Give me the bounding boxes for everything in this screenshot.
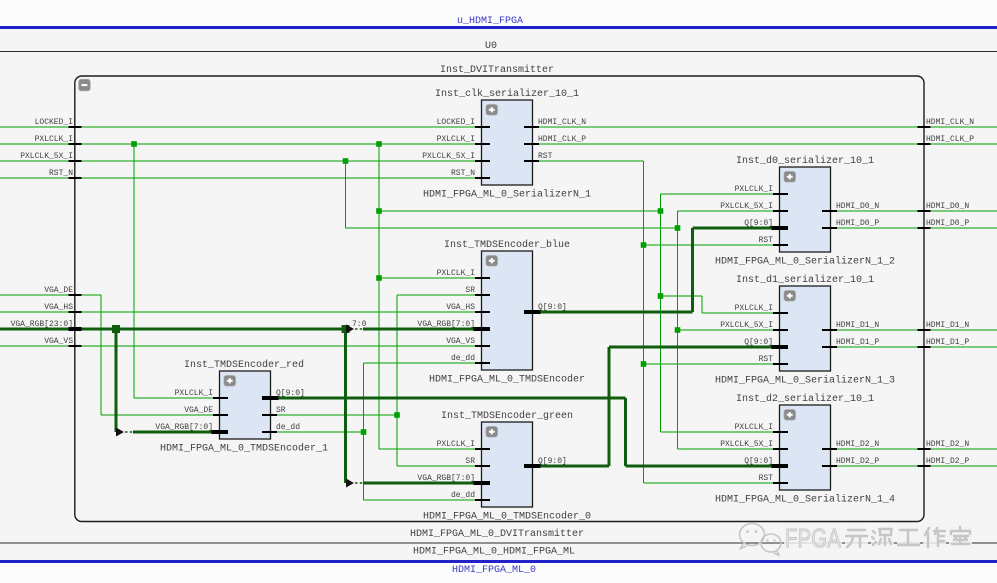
svg-text:HDMI_D0_N: HDMI_D0_N <box>836 202 879 211</box>
left frame feedthrough stubs <box>69 126 82 128</box>
pin PXLCLK_I of Inst_d0_serializer_10_1 <box>773 193 788 195</box>
pin VGA_VS of Inst_TMDSEncoder_blue <box>475 345 490 347</box>
right frame feedthrough stubs <box>918 126 931 128</box>
pin PXLCLK_I of Inst_TMDSEncoder_red <box>213 397 228 399</box>
pin SR of Inst_TMDSEncoder_green <box>475 465 490 467</box>
pin VGA_RGB[7:0] of Inst_TMDSEncoder_green <box>474 481 491 485</box>
svg-text:RST_N: RST_N <box>49 169 73 178</box>
pin LOCKED_I of U1 Inst_clk_serializer_10_1 <box>475 126 490 128</box>
svg-text:VGA_RGB[23:0]: VGA_RGB[23:0] <box>11 320 73 329</box>
bus ripper dashes at green encoder <box>355 482 363 484</box>
svg-text:HDMI_D0_N: HDMI_D0_N <box>926 202 969 211</box>
bus Q[9:0] green encoder to d1 - horizontal <box>541 465 610 468</box>
pin PXLCLK_I of Inst_d2_serializer_10_1 <box>773 431 788 433</box>
wire HDMI_D0_P output <box>836 227 997 229</box>
wire VGA_HS from left port to blue encoder <box>0 311 475 313</box>
wire SR from red encoder output <box>277 414 397 416</box>
pin HDMI_D0_N of Inst_d0_serializer_10_1 <box>822 210 837 212</box>
svg-text:PXLCLK_I: PXLCLK_I <box>437 269 475 278</box>
svg-text:u_HDMI_FPGA: u_HDMI_FPGA <box>457 16 523 27</box>
wire RST to d2 serializer <box>644 482 774 484</box>
component Inst_TMDSEncoder_red body <box>220 371 271 439</box>
svg-text:HDMI_FPGA_ML_0_TMDSEncoder: HDMI_FPGA_ML_0_TMDSEncoder <box>429 374 585 386</box>
svg-text:PXLCLK_I: PXLCLK_I <box>175 389 213 398</box>
wire HDMI_CLK_P output <box>539 143 997 145</box>
svg-text:Inst_TMDSEncoder_red: Inst_TMDSEncoder_red <box>184 359 304 371</box>
svg-text:PXLCLK_I: PXLCLK_I <box>735 185 773 194</box>
svg-text:de_dd: de_dd <box>451 354 475 363</box>
junction RST to d1 <box>641 361 647 367</box>
svg-text:PXLCLK_I: PXLCLK_I <box>437 440 475 449</box>
bus ripper dashes at blue encoder <box>355 328 363 330</box>
pin de_dd of Inst_TMDSEncoder_red <box>262 431 277 433</box>
expand icon of Inst_TMDSEncoder_green <box>486 427 498 438</box>
svg-text:HDMI_D1_P: HDMI_D1_P <box>836 338 879 347</box>
bus VGA_RGB tap vertical to green encoder <box>344 329 347 483</box>
svg-text:VGA_VS: VGA_VS <box>44 337 73 346</box>
wire PXLCLK_I vertical mid <box>378 144 380 449</box>
wire SR into green encoder <box>397 465 475 467</box>
bus Q[9:0] green to d1 - vertical <box>608 347 611 466</box>
bus Q[9:0] blue to d0 - vertical <box>691 228 694 312</box>
svg-text:HDMI_CLK_P: HDMI_CLK_P <box>538 135 586 144</box>
svg-text:HDMI_FPGA_ML_0_SerializerN_1_3: HDMI_FPGA_ML_0_SerializerN_1_3 <box>715 375 895 387</box>
svg-text:SR: SR <box>465 286 475 295</box>
pin RST of Inst_d1_serializer_10_1 <box>773 363 788 365</box>
pin SR of Inst_TMDSEncoder_red <box>262 414 277 416</box>
svg-text:VGA_DE: VGA_DE <box>184 406 213 415</box>
wire RST to d1 serializer <box>644 363 774 365</box>
collapse icon of Inst_DVITransmitter <box>79 79 91 91</box>
svg-text:U0: U0 <box>485 41 497 52</box>
frame U0 bottom edge <box>0 542 997 544</box>
wire de_dd into blue encoder <box>364 362 476 364</box>
svg-text:LOCKED_I: LOCKED_I <box>35 118 73 127</box>
svg-text:HDMI_CLK_N: HDMI_CLK_N <box>538 118 586 127</box>
component Inst_TMDSEncoder_green body <box>482 422 533 507</box>
bus Q[9:0] red to d2 - vertical <box>624 398 627 466</box>
pin de_dd of Inst_TMDSEncoder_blue <box>475 362 490 364</box>
bus ripper arrow at red encoder <box>116 428 124 437</box>
wire SR vertical <box>396 295 398 466</box>
expand icon of Inst_d0_serializer_10_1 <box>784 172 796 183</box>
svg-text:HDMI_CLK_N: HDMI_CLK_N <box>926 118 974 127</box>
pin PXLCLK_5X_I of Inst_d1_serializer_10_1 <box>773 329 788 331</box>
svg-text:HDMI_D2_P: HDMI_D2_P <box>926 457 969 466</box>
junction SR net <box>394 412 400 418</box>
pin RST of Inst_d0_serializer_10_1 <box>773 244 788 246</box>
pin SR of Inst_TMDSEncoder_blue <box>475 294 490 296</box>
bus VGA_RGB[7:0] into green encoder <box>363 482 474 485</box>
junction RST to d0 <box>641 242 647 248</box>
svg-text:HDMI_FPGA_ML_0_SerializerN_1_4: HDMI_FPGA_ML_0_SerializerN_1_4 <box>715 494 895 506</box>
svg-text:HDMI_D2_P: HDMI_D2_P <box>836 457 879 466</box>
watermark wechat icon <box>740 524 782 556</box>
component Inst_d1_serializer_10_1 body <box>780 286 831 371</box>
junction PXLCLK_I at x134 <box>131 141 137 147</box>
svg-text:HDMI_D1_N: HDMI_D1_N <box>926 321 969 330</box>
svg-text:RST_N: RST_N <box>451 169 475 178</box>
pin PXLCLK_I of Inst_d1_serializer_10_1 <box>773 312 788 314</box>
pin Q[9:0] of Inst_d1_serializer_10_1 <box>772 345 789 349</box>
frame u_HDMI_FPGA top edge <box>0 26 997 29</box>
bus junction VGA_RGB tap to red encoder <box>112 325 120 333</box>
pin HDMI_D0_P of Inst_d0_serializer_10_1 <box>822 227 837 229</box>
wire PXLCLK_I into red encoder <box>134 397 213 399</box>
svg-text:HDMI_FPGA_ML_0_DVITransmitter: HDMI_FPGA_ML_0_DVITransmitter <box>410 528 584 540</box>
svg-text:VGA_RGB[7:0]: VGA_RGB[7:0] <box>417 474 475 483</box>
wire LOCKED_I from left port to U1 <box>0 126 475 128</box>
svg-text:Q[9:0]: Q[9:0] <box>744 338 773 347</box>
pin Q[9:0] of Inst_d2_serializer_10_1 <box>772 464 789 468</box>
bus VGA_RGB tap vertical to red encoder <box>115 329 118 432</box>
component Inst_d2_serializer_10_1 body <box>780 405 831 490</box>
bus ripper arrow at blue encoder <box>346 325 354 334</box>
module box Inst_DVITransmitter <box>75 76 924 522</box>
wire PXLCLK_5X_I vertical down <box>345 161 347 228</box>
pin Q[9:0] of Inst_TMDSEncoder_green <box>524 464 541 468</box>
svg-text:Inst_DVITransmitter: Inst_DVITransmitter <box>440 64 554 76</box>
pin PXLCLK_5X_I of Inst_d2_serializer_10_1 <box>773 448 788 450</box>
pin HDMI_D1_P of Inst_d1_serializer_10_1 <box>822 346 837 348</box>
wire HDMI_CLK_N output <box>539 126 997 128</box>
svg-text:Q[9:0]: Q[9:0] <box>538 303 567 312</box>
pin RST of U1 Inst_clk_serializer_10_1 <box>524 160 539 162</box>
wire PXLCLK_I into green encoder <box>379 448 475 450</box>
junction PXLCLK_5X_I at serializer column <box>675 225 681 231</box>
junction PXLCLK_I at serializer column <box>658 208 664 214</box>
pin HDMI_D2_N of Inst_d2_serializer_10_1 <box>822 448 837 450</box>
watermark text FPGA <box>784 526 842 549</box>
svg-text:Inst_d2_serializer_10_1: Inst_d2_serializer_10_1 <box>736 393 874 405</box>
component U1 Inst_clk_serializer_10_1 body <box>482 100 533 185</box>
svg-text:Inst_d0_serializer_10_1: Inst_d0_serializer_10_1 <box>736 155 874 167</box>
svg-text:HDMI_D1_P: HDMI_D1_P <box>926 338 969 347</box>
wire PXLCLK_I from left port across <box>0 143 475 145</box>
svg-text:VGA_DE: VGA_DE <box>44 286 73 295</box>
svg-text:HDMI_D2_N: HDMI_D2_N <box>836 440 879 449</box>
svg-text:Q[9:0]: Q[9:0] <box>744 457 773 466</box>
pin Q[9:0] of Inst_TMDSEncoder_red <box>262 396 279 400</box>
wire de_dd from red encoder output <box>277 431 364 433</box>
wire de_dd into green encoder <box>364 499 476 501</box>
svg-text:Q[9:0]: Q[9:0] <box>276 389 305 398</box>
wire VGA_DE vertical <box>100 295 102 415</box>
svg-text:Q[9:0]: Q[9:0] <box>744 219 773 228</box>
wire PXLCLK_I serializer vertical <box>660 194 662 432</box>
svg-text:PXLCLK_I: PXLCLK_I <box>735 423 773 432</box>
pin HDMI_CLK_N of U1 Inst_clk_serializer_10_1 <box>524 126 539 128</box>
watermark text kai yuan gong zuo shi glyphs <box>845 526 868 548</box>
pin de_dd of Inst_TMDSEncoder_green <box>475 499 490 501</box>
junction PXLCLK_5X_I at x345 <box>343 158 349 164</box>
wire PXLCLK_I jog to d1 - vertical <box>701 296 703 313</box>
pin VGA_RGB[7:0] of Inst_TMDSEncoder_red <box>212 430 229 434</box>
pin HDMI_D1_N of Inst_d1_serializer_10_1 <box>822 329 837 331</box>
svg-text:SR: SR <box>465 457 475 466</box>
svg-text:FPGA: FPGA <box>785 523 842 553</box>
svg-text:PXLCLK_I: PXLCLK_I <box>35 135 73 144</box>
junction PXLCLK_I branch to serializers <box>376 208 382 214</box>
bus Q[9:0] into d2 serializer <box>626 465 772 468</box>
svg-text:HDMI_FPGA_ML_0_TMDSEncoder_1: HDMI_FPGA_ML_0_TMDSEncoder_1 <box>160 443 328 455</box>
wire PXLCLK_5X_I to d0 serializer <box>678 210 774 212</box>
bus Q[9:0] red encoder to d2 - horizontal <box>279 397 626 400</box>
frame U0 top edge <box>0 51 997 53</box>
svg-text:VGA_RGB[7:0]: VGA_RGB[7:0] <box>155 423 213 432</box>
bus VGA_RGB[7:0] into blue encoder <box>363 328 474 331</box>
wire PXLCLK_5X_I to d1 serializer <box>678 329 774 331</box>
wire PXLCLK_5X_I horizontal to serializer column <box>346 227 678 229</box>
bus ripper arrow at green encoder <box>346 479 354 488</box>
svg-text:SR: SR <box>276 406 286 415</box>
pin HDMI_CLK_P of U1 Inst_clk_serializer_10_1 <box>524 143 539 145</box>
wire PXLCLK_5X_I from left port <box>0 160 475 162</box>
wire PXLCLK_I into d2 serializer <box>661 431 774 433</box>
svg-text:VGA_HS: VGA_HS <box>44 303 73 312</box>
junction PXLCLK_I branch to d1 <box>658 293 664 299</box>
wire RST to d0 serializer <box>644 244 774 246</box>
bus VGA_RGB[7:0] into red encoder <box>133 431 212 434</box>
svg-text:HDMI_FPGA_ML_0_HDMI_FPGA_ML: HDMI_FPGA_ML_0_HDMI_FPGA_ML <box>413 547 575 558</box>
junction PXLCLK_I branch to blue encoder <box>376 275 382 281</box>
wire PXLCLK_I into d1 serializer <box>702 312 773 314</box>
svg-text:LOCKED_I: LOCKED_I <box>437 118 475 127</box>
bus ripper dashes at red encoder <box>125 431 133 433</box>
svg-text:PXLCLK_I: PXLCLK_I <box>735 304 773 313</box>
svg-text:HDMI_FPGA_ML_0_SerializerN_1_2: HDMI_FPGA_ML_0_SerializerN_1_2 <box>715 256 895 268</box>
svg-text:PXLCLK_5X_I: PXLCLK_5X_I <box>422 152 475 161</box>
svg-text:HDMI_CLK_P: HDMI_CLK_P <box>926 135 974 144</box>
svg-text:PXLCLK_5X_I: PXLCLK_5X_I <box>20 152 73 161</box>
pin HDMI_D2_P of Inst_d2_serializer_10_1 <box>822 465 837 467</box>
svg-text:VGA_VS: VGA_VS <box>446 337 475 346</box>
wire HDMI_D2_N output <box>836 448 997 450</box>
junction PXLCLK_I at x379 <box>376 141 382 147</box>
pin Q[9:0] of Inst_TMDSEncoder_blue <box>524 310 541 314</box>
junction PXLCLK_5X_I branch to d1 <box>675 327 681 333</box>
svg-text:HDMI_D2_N: HDMI_D2_N <box>926 440 969 449</box>
pin VGA_RGB[7:0] of Inst_TMDSEncoder_blue <box>474 327 491 331</box>
svg-text:HDMI_FPGA_ML_0: HDMI_FPGA_ML_0 <box>452 565 536 576</box>
pin RST_N of U1 Inst_clk_serializer_10_1 <box>475 177 490 179</box>
svg-text:HDMI_D1_N: HDMI_D1_N <box>836 321 879 330</box>
svg-text:RST: RST <box>759 355 774 364</box>
svg-text:Inst_clk_serializer_10_1: Inst_clk_serializer_10_1 <box>435 88 579 100</box>
wire SR into blue encoder <box>397 294 475 296</box>
wire HDMI_D2_P output <box>836 465 997 467</box>
bus Q[9:0] blue encoder to d0 - horizontal <box>541 311 693 314</box>
bus Q[9:0] into d0 serializer <box>693 227 772 230</box>
svg-text:VGA_HS: VGA_HS <box>446 303 475 312</box>
svg-text:HDMI_FPGA_ML_0_SerializerN_1: HDMI_FPGA_ML_0_SerializerN_1 <box>423 189 591 201</box>
wire VGA_DE into red encoder <box>101 414 213 416</box>
pin Q[9:0] of Inst_d0_serializer_10_1 <box>772 226 789 230</box>
pin PXLCLK_5X_I of Inst_d0_serializer_10_1 <box>773 210 788 212</box>
wire PXLCLK_5X_I to d2 serializer <box>678 448 774 450</box>
wire HDMI_D1_P output <box>836 346 997 348</box>
expand icon of Inst_d1_serializer_10_1 <box>784 291 796 302</box>
svg-text:VGA_RGB[7:0]: VGA_RGB[7:0] <box>417 320 475 329</box>
expand icon of Inst_TMDSEncoder_blue <box>486 256 498 267</box>
wire PXLCLK_I horizontal to serializer column <box>379 210 661 212</box>
svg-text:HDMI_D0_P: HDMI_D0_P <box>926 219 969 228</box>
wire RST_N from left port <box>0 177 475 179</box>
component Inst_TMDSEncoder_blue body <box>482 251 533 370</box>
svg-text:RST: RST <box>538 152 553 161</box>
wire de_dd vertical <box>363 363 365 500</box>
expand icon of Inst_d2_serializer_10_1 <box>784 410 796 421</box>
pin RST of Inst_d2_serializer_10_1 <box>773 482 788 484</box>
svg-text:Q[9:0]: Q[9:0] <box>538 457 567 466</box>
pin PXLCLK_I of Inst_TMDSEncoder_blue <box>475 277 490 279</box>
wire RST from U1 to vertical <box>539 160 644 162</box>
wire PXLCLK_I vertical to red encoder <box>133 144 135 398</box>
wire RST distribution vertical <box>643 161 645 483</box>
wire HDMI_D0_N output <box>836 210 997 212</box>
svg-text:HDMI_D0_P: HDMI_D0_P <box>836 219 879 228</box>
wire VGA_DE from left port <box>0 294 101 296</box>
junction de_dd net <box>361 429 367 435</box>
wire PXLCLK_I into blue encoder <box>379 277 475 279</box>
pin PXLCLK_5X_I of U1 Inst_clk_serializer_10_1 <box>475 160 490 162</box>
svg-text:PXLCLK_I: PXLCLK_I <box>437 135 475 144</box>
bus junction VGA_RGB tap to green encoder <box>342 325 350 333</box>
wire PXLCLK_5X_I serializer vertical <box>677 211 679 449</box>
svg-text:RST: RST <box>759 236 774 245</box>
wire HDMI_D1_N output <box>836 329 997 331</box>
svg-text:PXLCLK_5X_I: PXLCLK_5X_I <box>720 321 773 330</box>
pin VGA_HS of Inst_TMDSEncoder_blue <box>475 311 490 313</box>
svg-text:de_dd: de_dd <box>276 423 300 432</box>
svg-text:RST: RST <box>759 474 774 483</box>
bus VGA_RGB[23:0] from left port <box>0 328 346 331</box>
svg-text:Inst_TMDSEncoder_blue: Inst_TMDSEncoder_blue <box>444 239 570 251</box>
frame u_HDMI_FPGA bottom edge <box>0 560 997 563</box>
svg-text:HDMI_FPGA_ML_0_TMDSEncoder_0: HDMI_FPGA_ML_0_TMDSEncoder_0 <box>423 511 591 523</box>
pin VGA_DE of Inst_TMDSEncoder_red <box>213 414 228 416</box>
wire VGA_VS from left port to blue encoder <box>0 345 475 347</box>
svg-text:PXLCLK_5X_I: PXLCLK_5X_I <box>720 440 773 449</box>
bus Q[9:0] into d1 serializer <box>609 346 772 349</box>
wire PXLCLK_I to d0 serializer <box>661 193 774 195</box>
pin PXLCLK_I of Inst_TMDSEncoder_green <box>475 448 490 450</box>
wire PXLCLK_I jog to d1 - horizontal <box>661 295 703 297</box>
expand icon of Inst_TMDSEncoder_red <box>224 376 236 387</box>
svg-text:PXLCLK_5X_I: PXLCLK_5X_I <box>720 202 773 211</box>
component Inst_d0_serializer_10_1 body <box>780 167 831 252</box>
expand icon of U1 Inst_clk_serializer_10_1 <box>486 105 498 116</box>
svg-text:de_dd: de_dd <box>451 491 475 500</box>
svg-text:Inst_TMDSEncoder_green: Inst_TMDSEncoder_green <box>441 410 573 422</box>
svg-text:Inst_d1_serializer_10_1: Inst_d1_serializer_10_1 <box>736 274 874 286</box>
pin PXLCLK_I of U1 Inst_clk_serializer_10_1 <box>475 143 490 145</box>
